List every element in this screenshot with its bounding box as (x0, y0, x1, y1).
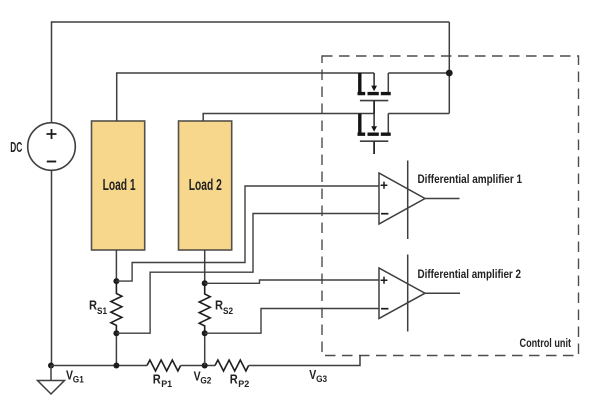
resistor RP2 (215, 360, 249, 371)
load Load 1 (92, 121, 145, 250)
wire: Load 2 top to Q2 source (203, 114, 374, 122)
op-amp U2 (differential amplifier 2) (379, 268, 425, 319)
label RS1 (89, 299, 108, 317)
svg-text:R: R (215, 299, 223, 313)
label RP1 (153, 373, 173, 390)
junction: RS2 bottom (202, 330, 208, 336)
control unit dashed border (322, 56, 579, 356)
junction: RS1 bottom (113, 330, 119, 336)
load Load 2 (179, 121, 232, 250)
wire: bottom rail left segment (51, 365, 147, 367)
resistor RP1 (147, 360, 181, 371)
wire: U2 bias line (407, 255, 409, 332)
op-amp U1 (differential amplifier 1) (379, 173, 425, 224)
dc source DC (28, 123, 76, 171)
junction: RS2 top (202, 280, 208, 286)
svg-text:P2: P2 (238, 379, 249, 390)
label VG3 (309, 368, 327, 385)
wire: top supply rail (52, 21, 450, 23)
wire: RS1 bottom to ground rail (115, 333, 117, 365)
wire: drain rail from top supply (448, 22, 450, 114)
wire: RS2 bottom to ground rail (204, 333, 206, 365)
wire: U1 bias line (407, 161, 409, 240)
wire: DC source top lead (51, 21, 53, 123)
junction: RS1 top (113, 278, 119, 284)
wire: RS1 top tap to amp U1 + input (116, 186, 379, 281)
svg-text:Load 1: Load 1 (103, 177, 136, 194)
wire: bottom rail right segment rising to control unit (VG3) (249, 355, 360, 366)
label RP2 (230, 373, 250, 390)
wire: U2 output (425, 292, 460, 294)
transistor Q2 (358, 114, 391, 155)
junction: RS1 rail node (113, 363, 119, 369)
label VG1 (66, 368, 84, 385)
wire: DC source bottom lead to ground rail (51, 170, 53, 365)
wire: Q1 drain to drain rail (388, 72, 449, 74)
wire: RS1 bottom tap to amp U1 - input (116, 214, 379, 334)
svg-text:G2: G2 (200, 376, 211, 387)
svg-text:DC: DC (10, 140, 22, 156)
svg-text:S1: S1 (97, 306, 108, 317)
svg-text:G1: G1 (73, 375, 85, 386)
svg-text:S2: S2 (223, 306, 233, 317)
junction: ground node VG1 (48, 363, 54, 369)
wire: Load 1 top to Q1 source (117, 73, 374, 121)
ground (38, 366, 65, 395)
resistor RS1 (111, 281, 122, 333)
wire: Load 1 bottom to RS1 (115, 250, 117, 281)
wire: RS2 bottom tap to amp U2 - input (205, 309, 379, 334)
svg-text:Load 2: Load 2 (189, 177, 222, 194)
wire: bottom rail mid segment (181, 365, 215, 367)
wire: RS2 top tap to amp U2 + input (205, 280, 379, 283)
svg-text:R: R (230, 373, 238, 387)
svg-text:R: R (89, 299, 97, 313)
junction: drain node (446, 70, 453, 77)
wire: U1 output (425, 198, 460, 200)
wire: Load 2 bottom to RS2 (204, 250, 206, 283)
wire: Q2 drain to drain rail (388, 113, 449, 115)
resistor RS2 (199, 283, 210, 333)
svg-text:G3: G3 (316, 374, 327, 385)
transistor Q1 (358, 73, 391, 114)
svg-text:Control unit: Control unit (520, 336, 572, 350)
svg-text:P1: P1 (161, 379, 173, 390)
svg-text:Differential amplifier 2: Differential amplifier 2 (418, 269, 522, 281)
junction: node VG2 (202, 363, 208, 369)
svg-text:R: R (153, 373, 161, 387)
label RS2 (215, 299, 233, 317)
svg-text:Differential amplifier 1: Differential amplifier 1 (418, 174, 523, 186)
label VG2 (194, 370, 212, 387)
